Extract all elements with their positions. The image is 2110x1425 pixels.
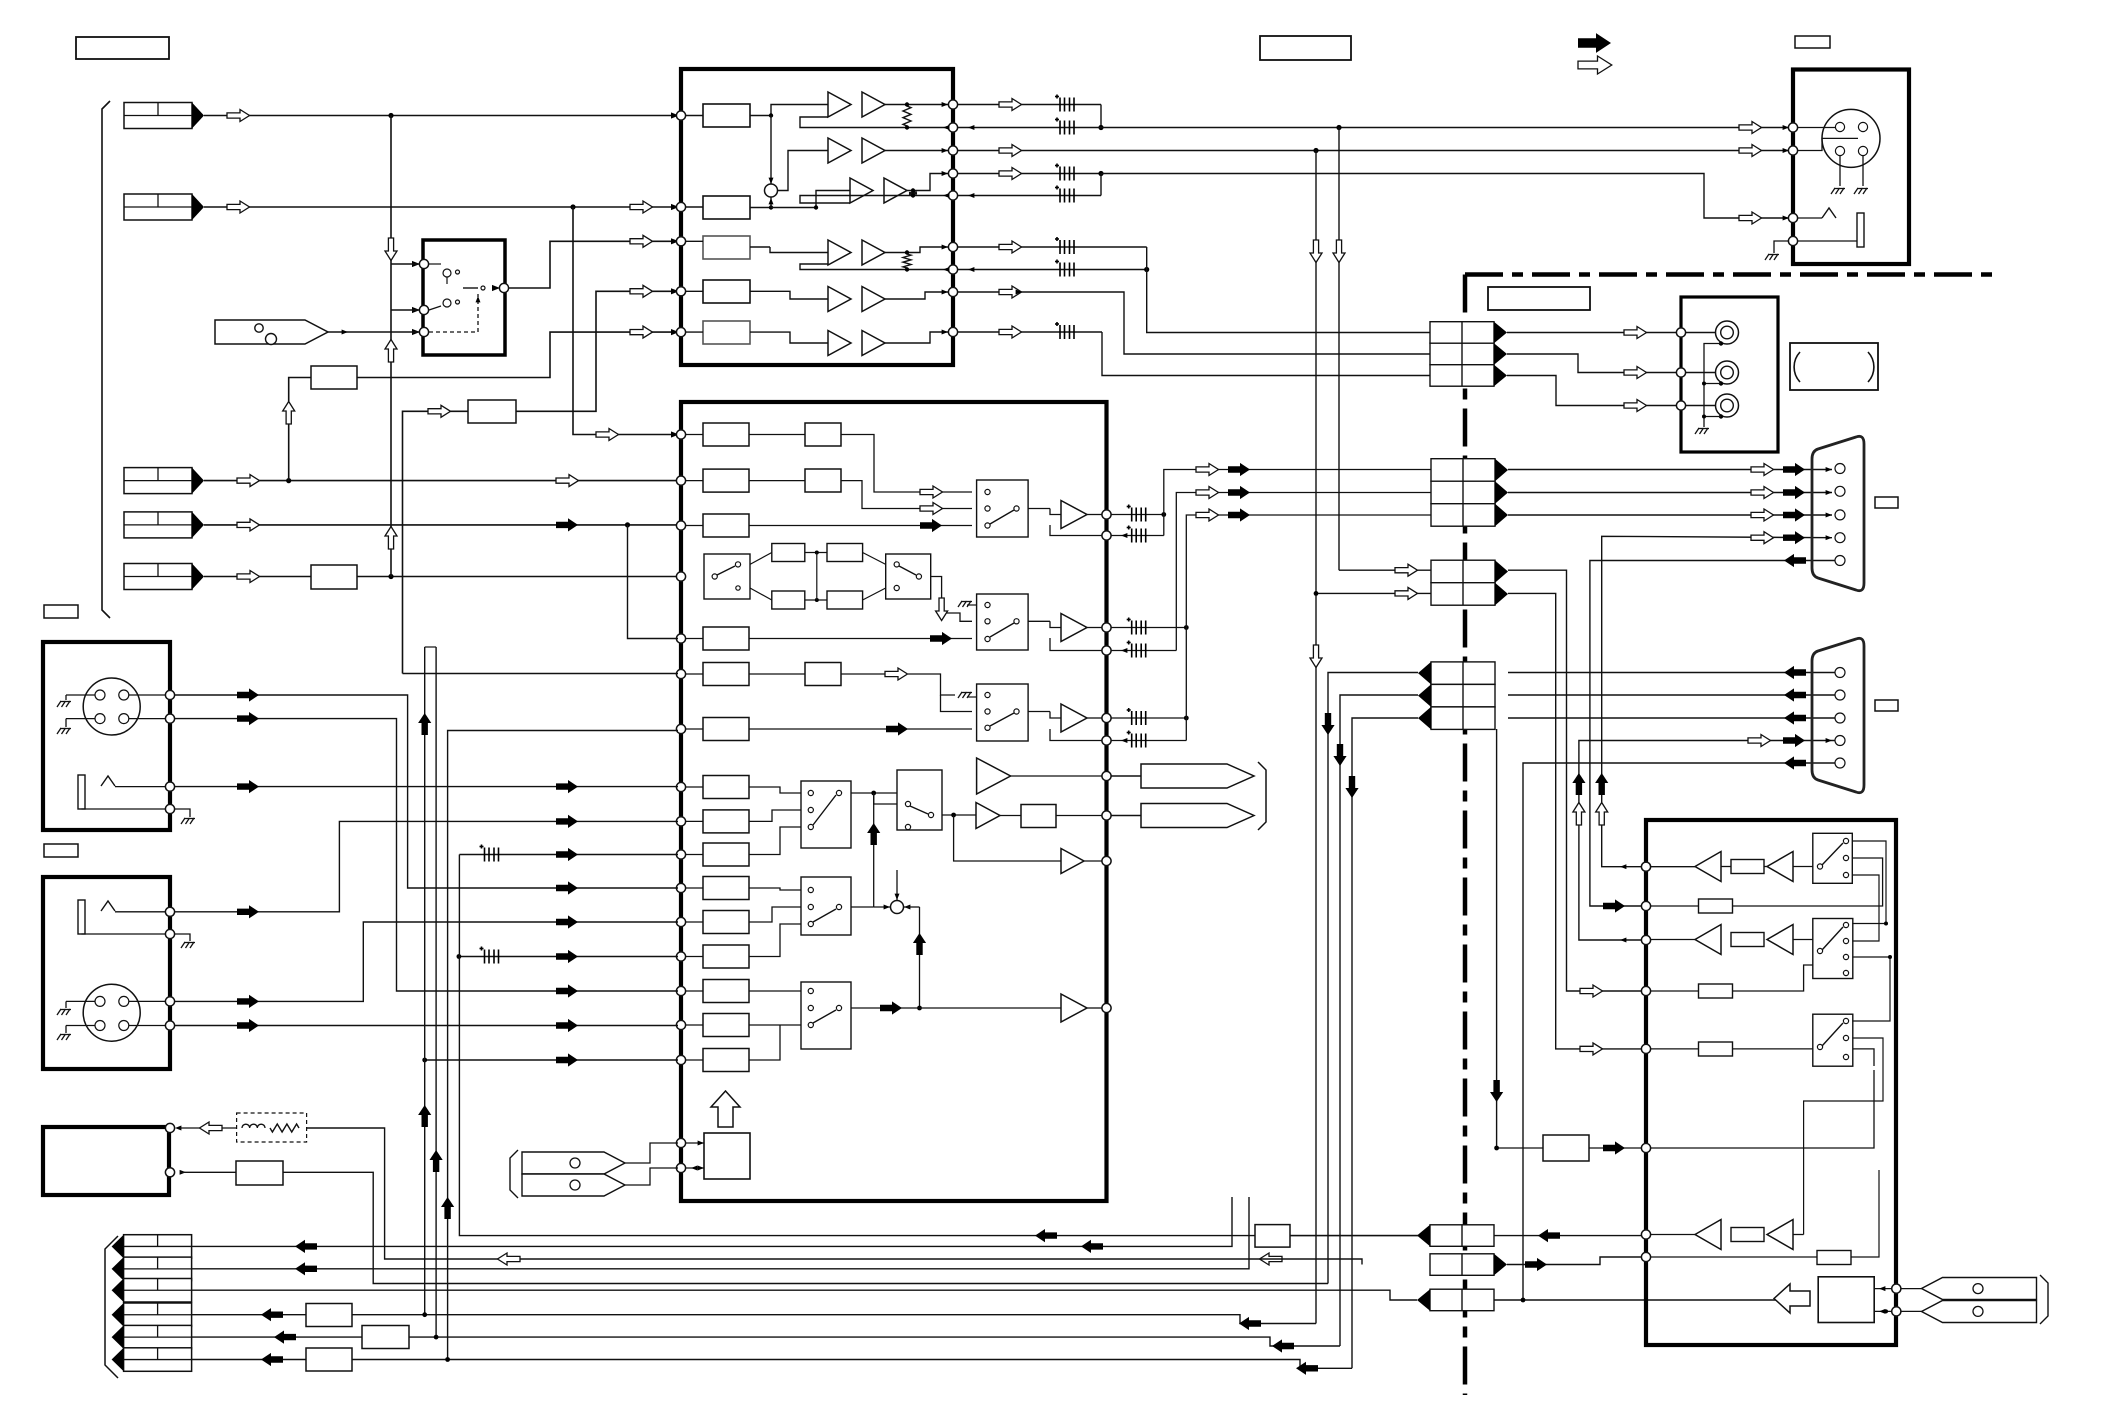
label box top-right [1795, 36, 1830, 48]
output connector cell [112, 1257, 192, 1281]
amp mon2 [954, 816, 1061, 862]
node U2 out pair3 [1102, 713, 1111, 722]
node U2 input [676, 986, 685, 995]
switch box SWD [897, 770, 942, 830]
node U1 input [676, 287, 685, 296]
ground [57, 1034, 71, 1040]
wire U1 out3 [958, 173, 1101, 175]
node U1 output [948, 100, 957, 109]
block U2 filt1 [805, 423, 841, 446]
RCA jack [1716, 394, 1739, 417]
title box top-center [1260, 36, 1351, 60]
node U2 input [676, 1138, 685, 1147]
amp out2 [1028, 620, 1050, 622]
feedback ch1 [800, 117, 948, 128]
wire trunk v391 [390, 116, 392, 577]
wire input3 to U2 [204, 480, 678, 482]
wire ch3 [771, 191, 850, 208]
input connector J3 [124, 468, 204, 494]
node U4 [1641, 901, 1650, 910]
wire SWD out [942, 814, 976, 816]
block U2 gain [703, 980, 749, 1003]
wire trunk v459 [459, 855, 1418, 1236]
connector box J7 (RCA) [1681, 297, 1778, 452]
jack J10 [78, 775, 85, 809]
feedback ch4 [800, 264, 948, 270]
feedback loop1 [1050, 525, 1102, 536]
ground [1774, 241, 1789, 253]
node U2 input [676, 782, 685, 791]
block U4 main box [1646, 820, 1896, 1345]
block U2 gain [703, 776, 749, 799]
node U2 out7 [1102, 1003, 1111, 1012]
pentagon tags keyboard [1922, 1278, 2037, 1300]
RCA ground chain [1704, 344, 1721, 428]
wire U1 fb1 row [1100, 105, 1102, 128]
label J9 [1875, 700, 1898, 711]
node U2 input [676, 521, 685, 530]
block U2 gain [703, 469, 749, 492]
pin J9 [1835, 668, 1845, 678]
pin J9 [1835, 713, 1845, 723]
block U2 gain [703, 945, 749, 968]
ribbon cell [1430, 322, 1507, 344]
wire trunk v424 [424, 647, 426, 1315]
node U1 input [676, 111, 685, 120]
switch box SWE [801, 982, 851, 1049]
legend open arrow [1578, 56, 1612, 74]
wire stack3 row3 down [1352, 718, 1418, 1368]
amp out bottom [1061, 994, 1087, 1022]
wire J11 jack to U2 [175, 821, 678, 911]
switch U4 s3 [1813, 1014, 1853, 1066]
label box with parens [1790, 343, 1878, 390]
connector box J11 (jack+XLR) [43, 877, 170, 1069]
block U1 ch4 filter [703, 236, 750, 259]
block U2 gain [703, 718, 749, 741]
switch U4 s2 [1813, 919, 1853, 979]
wire LC net [307, 1128, 1150, 1259]
D-sub connector J9 [1812, 638, 1864, 792]
wire stack3 row2 down [1340, 695, 1418, 1346]
pin J9 [1835, 736, 1845, 746]
wire cap row 854 [459, 854, 678, 856]
block U2 gain [703, 877, 749, 900]
wires into SWD2 [749, 888, 801, 890]
block U1 main box [681, 69, 953, 365]
input bracket [102, 101, 110, 618]
wire stack2b out1 to U4 [1508, 570, 1646, 991]
block U4 r4 [1651, 990, 1699, 992]
ribbon connector stack4 [1417, 1225, 1494, 1247]
node U4 [1641, 1230, 1650, 1239]
wire dsub2 row5 out [1523, 763, 1836, 1300]
block U2 filt2 [805, 469, 841, 492]
LC filter dashed [237, 1113, 307, 1142]
switch box SB3 [977, 684, 1029, 741]
solid up arrow inside U2 [873, 793, 875, 907]
wire ch6 [750, 332, 828, 343]
wire bank row4 right [352, 1315, 1316, 1324]
wire ch c [749, 525, 972, 527]
wire bank row2 [192, 1197, 1249, 1269]
wire SWD2 out [851, 906, 874, 908]
node J7 [1676, 401, 1685, 410]
pin J8 [1835, 486, 1845, 496]
block bank f5 [362, 1326, 409, 1349]
wires dsub2 to stack3 [1508, 672, 1836, 674]
node U1 output [948, 123, 957, 132]
node U1 input [676, 202, 685, 211]
block R2 [468, 400, 516, 423]
switch arm SW1 [463, 287, 478, 289]
wire ch1 [750, 105, 828, 116]
switch box SWB [886, 554, 931, 599]
wire keyboard row [1521, 1298, 1526, 1303]
output connector cell [112, 1303, 192, 1327]
wire SW1 out to U1 ch3 [509, 241, 678, 288]
connector box J12 [43, 1127, 169, 1195]
pin J8 [1835, 510, 1845, 520]
wire trunk v1316 [1315, 151, 1317, 1324]
big open left arrow [1774, 1284, 1810, 1313]
block U2 gain [703, 423, 749, 446]
wire ch b [841, 481, 972, 509]
node U1 input [676, 328, 685, 337]
wire input4 to U2 [204, 524, 678, 526]
block bank f6 [306, 1348, 352, 1371]
wire trunk v447 [448, 731, 678, 1360]
wire R3 out [357, 576, 678, 578]
big buffer amp [977, 758, 1011, 794]
feedback loop2 [1050, 638, 1102, 651]
node U2 input [676, 634, 685, 643]
node U1 output [948, 242, 957, 251]
wire bank row6 [192, 1359, 306, 1361]
block U1 ch1 filter [703, 104, 750, 127]
node J6 [1788, 146, 1797, 155]
wires pentagons to U2 [625, 1143, 678, 1163]
wire SWE out [851, 1007, 1061, 1009]
block U2 gain [703, 810, 749, 833]
D-sub connector J8 [1812, 436, 1864, 590]
node U2 out5 [1102, 811, 1111, 820]
wire R1 to U1 ch5 [357, 332, 678, 377]
block small mix [1255, 1225, 1290, 1248]
node J7 [1676, 368, 1685, 377]
label box near divider [1488, 287, 1590, 310]
wire U1 fb3 row [958, 195, 1101, 197]
RCA jack [1716, 361, 1739, 384]
wire ribbon1 to RCA1 [1507, 332, 1717, 334]
node J10 jack [165, 782, 174, 791]
wire to phones tag1 [1112, 775, 1142, 777]
keyboard block [1818, 1277, 1874, 1323]
DIN circle [1822, 109, 1880, 167]
sum node [765, 184, 778, 197]
mic pentagon tag [215, 320, 328, 344]
wire bank row1 [192, 1197, 1232, 1246]
input connector J5 [124, 564, 204, 590]
wire input1 to U1 [204, 115, 678, 117]
connector box J6 (DIN) [1793, 70, 1909, 265]
ribbon cell [1430, 365, 1507, 387]
switch U4 s1 [1813, 833, 1853, 883]
node U1 output [948, 265, 957, 274]
amp pair ch1 [828, 92, 851, 117]
wire U1 out1 [958, 104, 1101, 106]
block bottom filter [236, 1161, 283, 1185]
block U2 gain [703, 1049, 749, 1072]
block bank f4 [306, 1304, 352, 1327]
node U2 input [676, 1055, 685, 1064]
switch box SB2 [977, 594, 1029, 650]
block U2 main box [681, 402, 1107, 1201]
wire ch4 [750, 248, 828, 253]
node U1 output [948, 287, 957, 296]
node U2 input [676, 430, 685, 439]
wire stack4 row1 [1494, 1235, 1643, 1237]
block U1 ch5 filter [703, 280, 750, 303]
ribbon cell [1418, 707, 1495, 730]
wire J11 pin2 to U2 [175, 1025, 678, 1027]
node U2 out pair1 [1102, 510, 1111, 519]
nodes U4 right [1874, 1288, 1891, 1290]
wire U1 out6 to ribbon row3 [958, 331, 1102, 333]
node U2 input [676, 817, 685, 826]
pin J8 [1835, 464, 1845, 474]
node J11 sleeve [165, 929, 174, 938]
node J11 jack [165, 907, 174, 916]
XLR circle J10 [83, 678, 140, 735]
pentagon brace [510, 1150, 518, 1198]
node U4 [1641, 986, 1650, 995]
switch box SWA [704, 554, 750, 599]
amp out3 [1028, 711, 1050, 713]
wire input5 to U2 [204, 576, 311, 578]
wire trunk v1339 [1338, 128, 1340, 571]
block trim R3 [311, 565, 357, 589]
wire ribbon1 to RCA2 [1507, 354, 1717, 373]
vertical from mix to row 1008 [919, 907, 921, 1008]
ribbon cell [1431, 459, 1508, 482]
wire into U4 row6 [1589, 1147, 1641, 1149]
wire ch a [841, 435, 972, 493]
ground [958, 601, 972, 607]
headphone tags (right of U2) [1141, 764, 1254, 788]
ribbon cell [1418, 684, 1495, 707]
wire cap row 956 [459, 956, 678, 958]
node U2 input [676, 476, 685, 485]
block U1 ch6 filter [703, 321, 750, 344]
wire to DIN jack [1101, 174, 1789, 219]
pin J8 [1835, 556, 1845, 566]
block U2 gain [703, 843, 749, 866]
ribbon cell [1431, 560, 1508, 583]
block U2 gain [703, 514, 749, 537]
input connector J4 [124, 512, 204, 538]
switch box SWD2 [801, 877, 851, 935]
title box top-left [76, 37, 169, 59]
node U4 [1641, 862, 1650, 871]
wire ch e [841, 673, 885, 675]
amp pair ch4 [828, 240, 851, 265]
amp out1 [1028, 508, 1050, 510]
node U4 [1641, 1143, 1650, 1152]
block mon level [1021, 805, 1056, 828]
node J6 [1788, 213, 1797, 222]
wire to DIN pin1 [1101, 127, 1789, 129]
block U2 gain [703, 1014, 749, 1037]
ribbon cell [1431, 481, 1508, 504]
node U2 input [676, 917, 685, 926]
dash-dot divider horizontal [1465, 272, 1996, 277]
wire R2 to U1 ch4 [516, 291, 678, 411]
wire trunk v436 [435, 647, 437, 1337]
block U2 gain [703, 627, 749, 650]
pin J8 [1835, 533, 1845, 543]
RCA jack [1716, 321, 1739, 344]
block U2 filt3 [805, 663, 841, 686]
block U4 r5 [1651, 1048, 1699, 1050]
tri pair U4 row1 [1651, 866, 1695, 868]
wire stack2b out2 to U4 [1508, 593, 1646, 1049]
ribbon cell [1431, 583, 1508, 606]
wire stack4 row2 [1507, 1257, 1643, 1265]
pentagon brace right [2040, 1275, 2048, 1324]
DIN wiring [1798, 127, 1835, 129]
block ext rect [1543, 1135, 1589, 1161]
node J7 [1676, 328, 1685, 337]
node U1 output [948, 327, 957, 336]
amp pair ch2 [828, 138, 851, 163]
interconnect verticals U4 [1852, 841, 1886, 924]
wires into SWC [749, 787, 801, 793]
amp pair ch3 [850, 178, 873, 203]
wire ch5 [750, 291, 828, 299]
big open up arrow [711, 1091, 740, 1127]
ribbon cell [1418, 662, 1495, 685]
ladder rects [772, 544, 805, 562]
cap trunk tops [425, 646, 436, 648]
bank brace [105, 1236, 118, 1378]
ground [1831, 188, 1845, 194]
node U2 input [676, 952, 685, 961]
wire bank row5 [192, 1336, 362, 1338]
node U2 out pair2 [1102, 623, 1111, 632]
block R1 [311, 366, 357, 389]
node U1 output [948, 146, 957, 155]
block U2 gain [703, 663, 749, 686]
node U1 input [676, 237, 685, 246]
wire ribbon1 to RCA3 [1507, 376, 1717, 406]
connector box J10 (XLR+jack) [43, 642, 170, 830]
node J6 [1788, 236, 1797, 245]
wire J10 pin2 to U2 [175, 719, 678, 991]
wire bank row5 right [409, 1337, 1340, 1346]
node U2 input [676, 724, 685, 733]
output connector cell [112, 1325, 192, 1349]
wire U4 to dsub1 row4 [1602, 536, 1832, 866]
ground [958, 692, 972, 698]
wire row 1060 [425, 1059, 678, 1061]
node U2 input [676, 669, 685, 678]
dash-dot divider vertical [1463, 275, 1468, 1396]
node U2 out4 [1102, 771, 1111, 780]
node J10 [165, 690, 174, 699]
node U2 input [676, 883, 685, 892]
input connector J1 [124, 103, 204, 129]
block U4 r8 [1817, 1251, 1851, 1265]
ground [1695, 428, 1709, 434]
wire U4 row8 [1651, 1256, 1817, 1258]
wire ch2 to amps [778, 151, 828, 191]
switch box SB1 [977, 480, 1029, 537]
wire trunk v627 [628, 525, 679, 639]
node J10 [165, 714, 174, 723]
switch box SWC [801, 781, 851, 848]
wire R2 in [403, 411, 469, 673]
jack J11 [78, 900, 85, 934]
node J12 [165, 1123, 174, 1132]
wire pair1 caps to stack2 r1 [1112, 514, 1164, 516]
node J12 b [165, 1168, 174, 1177]
label J8 [1875, 497, 1898, 508]
wire mic to SW1 [328, 331, 419, 333]
output connector cell [112, 1348, 192, 1372]
ground [181, 942, 195, 948]
node U2 input [676, 572, 685, 581]
ground [181, 818, 195, 824]
wire trunk v402 [403, 673, 679, 675]
wire J11 pin1 to U2 [175, 922, 678, 1001]
wire J10 pin1 to U2 [175, 695, 678, 888]
node U4 [1641, 935, 1650, 944]
wire SWC out [851, 792, 897, 794]
wire U1 fb4 row [958, 269, 1147, 271]
wire SWB out [931, 577, 972, 622]
wires into SWE [749, 990, 801, 992]
wire cap rows to ribbon row1 [1147, 247, 1430, 333]
node U2 input [676, 1020, 685, 1029]
wire bank row6 right [352, 1360, 1352, 1369]
XLR circle J11 [83, 984, 140, 1041]
wire ch d [749, 638, 972, 640]
tri pair U4 row3 [1651, 939, 1695, 941]
wire stack4 row3 [1494, 1299, 1779, 1301]
node U1 output [948, 169, 957, 178]
output connector cell [112, 1235, 192, 1259]
DIN jack tip [1798, 217, 1822, 219]
node J10 sleeve [165, 804, 174, 813]
pin J9 [1835, 758, 1845, 768]
block U4 r2 [1651, 905, 1699, 907]
wire U1 out4 [958, 246, 1147, 248]
ground [57, 1009, 71, 1015]
wire stack3 row1 down [1328, 673, 1418, 1284]
wire input2 to U1 [204, 206, 678, 208]
amp mon1 [976, 803, 1000, 829]
node J11 [165, 1021, 174, 1030]
wire stack2 to dsub rows [1508, 469, 1832, 471]
feedback loop3 [1050, 729, 1102, 741]
wire to row 1283 [283, 1172, 1328, 1283]
DIN jack sleeve [1857, 213, 1864, 247]
legend solid arrow [1578, 33, 1611, 53]
tri pair U4 row7 [1651, 1234, 1695, 1236]
wire U1 out2 to DIN pin2 [958, 150, 1789, 152]
wire bank row3 [192, 1290, 1417, 1300]
